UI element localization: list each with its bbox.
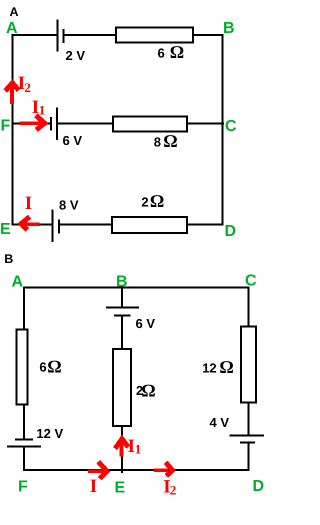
svg-text:2: 2	[24, 80, 31, 95]
svg-text:D: D	[253, 478, 265, 495]
svg-text:8 V: 8 V	[59, 198, 79, 213]
svg-text:B: B	[223, 20, 235, 37]
svg-text:F: F	[18, 479, 28, 496]
svg-text:4 V: 4 V	[210, 415, 230, 430]
svg-text:Ω: Ω	[170, 42, 184, 62]
svg-text:1: 1	[39, 102, 46, 117]
svg-text:Ω: Ω	[150, 191, 164, 211]
svg-text:2: 2	[170, 483, 177, 498]
svg-text:A: A	[12, 274, 24, 291]
svg-text:I: I	[25, 193, 32, 214]
svg-text:6 V: 6 V	[136, 316, 156, 331]
svg-text:C: C	[245, 273, 257, 290]
svg-text:A: A	[6, 20, 18, 37]
svg-text:I: I	[90, 476, 97, 497]
svg-text:8: 8	[154, 135, 161, 150]
svg-text:A: A	[10, 5, 19, 19]
svg-text:2 V: 2 V	[66, 48, 86, 63]
svg-text:Ω: Ω	[47, 357, 61, 377]
svg-text:12: 12	[202, 361, 216, 376]
svg-text:D: D	[225, 223, 237, 240]
svg-text:F: F	[1, 118, 11, 135]
svg-text:12 V: 12 V	[36, 426, 63, 441]
svg-text:C: C	[225, 118, 237, 135]
svg-text:E: E	[115, 480, 126, 497]
svg-text:6 V: 6 V	[63, 133, 83, 148]
svg-text:B: B	[116, 274, 128, 291]
svg-text:Ω: Ω	[163, 131, 177, 151]
svg-text:Ω: Ω	[141, 381, 155, 401]
svg-text:1: 1	[135, 442, 142, 457]
svg-text:Ω: Ω	[219, 357, 233, 377]
svg-text:B: B	[4, 252, 13, 266]
svg-text:6: 6	[39, 360, 46, 375]
svg-text:6: 6	[158, 46, 165, 61]
svg-text:E: E	[0, 221, 11, 238]
svg-text:2: 2	[141, 195, 148, 210]
